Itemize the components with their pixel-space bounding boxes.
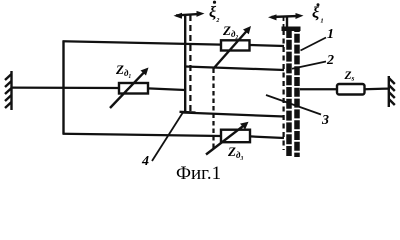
plate top cap (282, 27, 301, 32)
plate stem solid (286, 16, 288, 29)
label 2 with leader (292, 53, 334, 69)
rod 4 dashed line (189, 15, 191, 112)
svg-text:2: 2 (326, 53, 334, 68)
svg-text:Zд₂: Zд₂ (222, 23, 239, 39)
svg-text:1: 1 (327, 27, 334, 42)
impedance Zd3 variable arrow (206, 122, 249, 155)
ground wall right (389, 76, 395, 107)
impedance Zd2 box (221, 40, 250, 50)
plate stem dashed (283, 17, 285, 30)
svg-text:Фиг.1: Фиг.1 (176, 163, 221, 184)
label 4 with leader (141, 112, 184, 170)
rod 4 solid line (184, 15, 186, 112)
wire: plate to Zs box (300, 88, 337, 90)
wire: line 4, rod bottom to plate (182, 113, 284, 117)
node: left loop vertical (62, 41, 64, 134)
velocity arrow bar xi2 (174, 11, 205, 19)
wire: top loop, corner to Zd2 box (63, 41, 222, 44)
label 1 with leader (301, 27, 335, 51)
svg-text:Zд₃: Zд₃ (227, 144, 244, 160)
wire: Zd2 box to plate (250, 45, 285, 46)
wire: Zs box to right wall (365, 87, 390, 90)
svg-text:Zs: Zs (344, 70, 355, 83)
impedance Zd3 box (221, 130, 250, 143)
label xi2 (209, 1, 220, 23)
svg-text:Zд₁: Zд₁ (115, 62, 132, 78)
node: dashed hanger vertical (212, 69, 214, 151)
svg-text:ξ₁: ξ₁ (312, 5, 324, 24)
svg-text:3: 3 (321, 113, 329, 128)
label 3 with leader (266, 95, 329, 128)
impedance Zs box (337, 84, 365, 95)
wire: line 2, rod to plate (186, 67, 285, 71)
wire: bottom loop, corner to Zd3 box (63, 134, 222, 136)
wire: Zd1 box to rod 4 (148, 88, 185, 90)
plate bar 1 (286, 28, 292, 157)
plate bar 2 (294, 28, 300, 157)
impedance Zd2 variable arrow (214, 26, 252, 69)
svg-text:ξ₂: ξ₂ (209, 4, 220, 23)
impedance Zd1 variable arrow (110, 68, 149, 109)
wire: left wall to Zd1 box (12, 86, 120, 89)
ground wall left (5, 71, 12, 110)
svg-text:4: 4 (141, 154, 149, 169)
impedance Zd1 box (119, 83, 148, 94)
plate dashed edge (282, 30, 284, 150)
wire: Zd3 box to plate (250, 136, 284, 138)
velocity arrow bar xi1 (268, 13, 304, 20)
label xi1 (312, 3, 324, 23)
rod 4 bottom cap (180, 111, 196, 114)
